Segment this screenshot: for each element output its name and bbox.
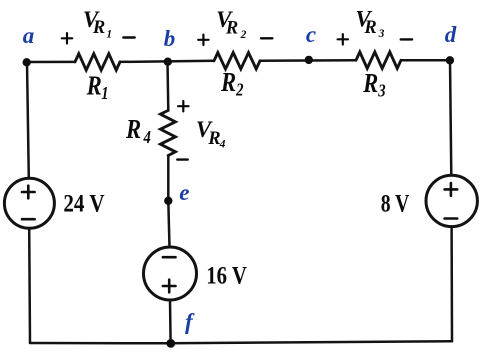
- svg-text:24 V: 24 V: [63, 191, 104, 218]
- svg-text:2: 2: [240, 29, 247, 41]
- svg-text:R: R: [362, 69, 378, 98]
- svg-text:R: R: [363, 18, 376, 38]
- svg-text:4: 4: [219, 139, 226, 151]
- svg-text:d: d: [445, 22, 457, 47]
- svg-text:R: R: [207, 129, 220, 149]
- svg-text:R: R: [125, 115, 141, 144]
- svg-text:1: 1: [106, 29, 112, 41]
- svg-text:b: b: [164, 26, 176, 51]
- svg-text:R: R: [86, 72, 102, 101]
- svg-text:e: e: [179, 180, 189, 205]
- svg-text:3: 3: [377, 82, 385, 100]
- svg-text:R: R: [92, 18, 105, 38]
- svg-text:16 V: 16 V: [206, 262, 247, 289]
- svg-text:3: 3: [378, 28, 385, 40]
- svg-text:c: c: [306, 22, 316, 47]
- svg-text:a: a: [23, 23, 35, 48]
- svg-text:1: 1: [101, 85, 108, 103]
- svg-text:R: R: [220, 68, 236, 97]
- svg-text:8 V: 8 V: [381, 191, 410, 218]
- svg-text:4: 4: [143, 129, 151, 147]
- svg-text:R: R: [225, 19, 238, 39]
- svg-text:2: 2: [235, 81, 243, 99]
